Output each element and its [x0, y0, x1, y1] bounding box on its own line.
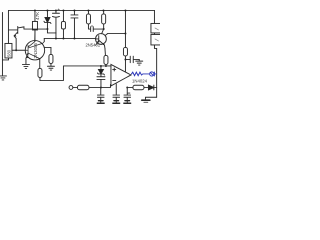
resistor R8 — [123, 47, 127, 56]
node y32.7 — [124, 32, 126, 34]
diode D3 — [144, 85, 157, 90]
resistor R9 — [77, 85, 89, 90]
wire Q3 emitter down — [25, 58, 27, 64]
resistor R6 — [38, 68, 42, 77]
transistor Q3 power — [25, 41, 44, 60]
resistor R11 blue zigzag — [131, 72, 156, 76]
ground G4 — [136, 61, 143, 65]
capacitor C1 — [58, 9, 60, 11]
wire zener jog down — [47, 29, 56, 33]
node C3 junction — [103, 28, 105, 30]
wire relay to output column — [154, 45, 156, 97]
wire R8 column — [124, 10, 126, 47]
wire Q3 right to R7 — [44, 47, 51, 54]
svg-text:47K: 47K — [35, 11, 40, 20]
ground G6 — [113, 101, 120, 104]
wire base bus y38 — [44, 37, 96, 39]
ground G5 — [97, 101, 104, 104]
node input junction — [100, 86, 102, 88]
resistor R10 feedback — [127, 86, 133, 88]
wire mid bus y65.5 — [63, 65, 110, 67]
ground G7 — [124, 101, 131, 104]
wire zener to Q1 collector — [24, 28, 48, 30]
capacitor C3 — [88, 24, 103, 32]
resistor R3 — [87, 10, 89, 14]
capacitor C8 to ground — [124, 87, 131, 103]
capacitor C7 to ground — [113, 84, 120, 103]
wire box bottom to left edge — [2, 58, 8, 60]
svg-text:1N4024: 1N4024 — [132, 78, 148, 83]
wire top rail — [8, 9, 154, 11]
resistor R4 — [103, 10, 105, 14]
diode D4 blue — [150, 72, 154, 76]
ground G3 — [47, 66, 54, 70]
ground G8 — [142, 99, 150, 101]
capacitor C6 to ground — [97, 87, 104, 103]
wire corner bottom right to ground — [145, 97, 156, 99]
op-amp U1 — [111, 64, 131, 86]
node base junction — [15, 49, 17, 51]
transistor Q2 2N5401 — [96, 34, 107, 45]
svg-text:u: u — [91, 24, 93, 28]
relay box K1b — [151, 34, 161, 45]
diode D1 zener — [46, 10, 48, 17]
resistor R1 47K — [34, 10, 36, 21]
svg-text:2N3055: 2N3055 — [33, 43, 38, 59]
wire right drop to relay — [153, 10, 155, 23]
wire Q3 to R6 — [39, 59, 41, 69]
ground G1 — [0, 76, 6, 80]
wire left edge line — [1, 12, 3, 75]
resistor R7 — [49, 54, 53, 63]
diode D2 zener to input — [100, 65, 102, 67]
wire Q2 collector line y32.7 — [106, 33, 126, 35]
node zener junction — [46, 28, 48, 30]
wire Q2 emitter to R5 — [104, 48, 107, 55]
resistor R2 — [62, 10, 64, 21]
wire left drop — [7, 10, 9, 43]
node R5 bottom — [105, 65, 107, 67]
capacitor C2 electrolytic — [71, 10, 78, 38]
component box B1 — [5, 43, 12, 58]
wire Q3 collector corner — [43, 38, 45, 41]
svg-text:2N5401: 2N5401 — [85, 43, 100, 48]
capacitor C4 — [125, 56, 139, 62]
relay box K1a — [151, 23, 161, 33]
ground G2 — [22, 64, 29, 68]
transistor Q1 — [8, 26, 24, 50]
svg-text:580: 580 — [6, 49, 11, 57]
wire C1 to base bus — [55, 33, 57, 39]
input terminal J1 — [69, 86, 73, 90]
wire to op-amp inverting input — [101, 85, 111, 88]
node y59 — [124, 58, 126, 60]
node rail dots — [34, 9, 127, 39]
wire box to Q3 base — [12, 49, 25, 51]
wire jog bus — [40, 66, 64, 81]
resistor R5 — [104, 55, 108, 64]
node feedback — [126, 86, 128, 88]
capacitor C5 — [97, 74, 105, 87]
